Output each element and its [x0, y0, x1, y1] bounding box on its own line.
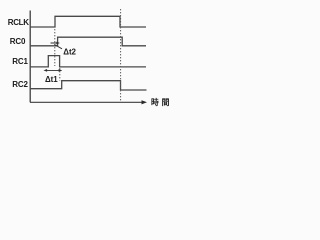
vertical axis: [29, 11, 31, 103]
svg-text:RC0: RC0: [10, 37, 26, 46]
time axis: [30, 101, 142, 103]
RC1 waveform (pulse): [30, 56, 146, 67]
RC0 waveform: [30, 37, 146, 46]
svg-text:RCLK: RCLK: [8, 18, 29, 27]
dotted line at RCLK rising edge x=55: [54, 29, 56, 66]
dotted line at RCLK falling edge x=120.6 (full height): [120, 9, 122, 102]
delta-t1 double arrow under RC1 pulse: [45, 69, 62, 71]
svg-text:Δt1: Δt1: [45, 75, 58, 84]
svg-text:RC2: RC2: [12, 80, 28, 89]
time axis arrowhead: [142, 100, 148, 104]
dotted line at RC1 falling edge x=60: [59, 68, 61, 81]
delta-t2 leader line: [55, 45, 63, 49]
svg-text:RC1: RC1: [12, 57, 28, 66]
RC2 waveform: [30, 81, 147, 90]
RCLK waveform: [30, 16, 146, 27]
delta-t2 arrow pointing at RC0 rising edge: [51, 42, 58, 44]
svg-text:Δt2: Δt2: [63, 47, 76, 56]
svg-text:時間: 時間: [151, 97, 172, 107]
